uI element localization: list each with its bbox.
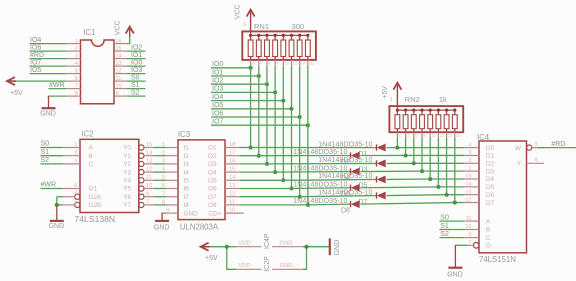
svg-text:15: 15: [146, 142, 152, 148]
svg-text:Y6: Y6: [123, 194, 131, 201]
svg-text:7: 7: [162, 191, 165, 197]
RN2 pin stub bottom 8: [454, 129, 456, 133]
wire net S2 to IC2 C: [41, 163, 64, 165]
svg-text:S2: S2: [131, 90, 140, 97]
svg-text:GND: GND: [40, 110, 56, 117]
wire RN2 column 8 vertical: [454, 138, 456, 203]
RN2 pin stub bottom 2: [405, 129, 407, 133]
svg-text:IO7: IO7: [30, 60, 41, 67]
svg-text:Y4: Y4: [123, 178, 131, 185]
svg-text:12: 12: [439, 133, 444, 138]
IC2 G2A inversion bubble: [75, 194, 80, 199]
RN2 pin stub bottom 5: [429, 129, 431, 133]
svg-text:O3: O3: [208, 161, 217, 168]
wire net IO3 stub: [211, 91, 275, 93]
wire RN1 column 6 vertical: [291, 66, 293, 189]
svg-text:Y2: Y2: [123, 161, 131, 168]
IC3 pin 13 (O6) stub: [225, 188, 240, 190]
junction IO4 at RN1 column: [281, 99, 285, 103]
svg-text:IO3: IO3: [212, 86, 223, 93]
RN1 resistor element 3: [265, 40, 270, 57]
RN2 pin stub bottom 1: [396, 129, 398, 133]
supply symbol +5V bottom: [207, 246, 227, 248]
RN1 pin stub bottom 6: [291, 57, 293, 60]
IC3 pin 2 (I2) stub: [166, 155, 178, 157]
svg-text:GND: GND: [280, 263, 293, 269]
svg-text:12: 12: [116, 68, 122, 74]
svg-text:IO0: IO0: [131, 60, 142, 67]
svg-text:18: 18: [229, 142, 235, 148]
IC4 pin 1 (D3) stub: [464, 170, 479, 172]
ground symbol GND rotated right: [329, 238, 331, 255]
svg-text:GND: GND: [334, 240, 341, 256]
svg-text:7: 7: [75, 83, 78, 89]
svg-text:I8: I8: [184, 202, 190, 209]
IC3 pin 3 (I3) stub: [166, 163, 178, 165]
IC4 pin 5 (W) stub: [532, 147, 544, 149]
svg-text:1: 1: [468, 166, 471, 172]
svg-text:4: 4: [74, 191, 77, 197]
RN1 bus junction 5: [282, 34, 285, 37]
RN1 common bus: [251, 34, 308, 36]
wire VCC to IC1 pin 16: [127, 37, 130, 44]
IC3 pin 14 (O5) stub: [225, 179, 240, 181]
svg-text:I1: I1: [184, 145, 190, 152]
IC1 pin 1 stub: [66, 43, 80, 45]
IC2 output Y4 inversion bubble: [139, 178, 144, 183]
supply symbol +5V at IC1 pin 6: [13, 80, 66, 82]
svg-text:2: 2: [468, 158, 471, 164]
wire RN2 column 6 vertical: [437, 138, 439, 187]
svg-text:9: 9: [468, 232, 471, 238]
IC3 pin 11 (O8) stub: [225, 204, 240, 206]
svg-text:S0: S0: [440, 215, 449, 222]
svg-text:+5V: +5V: [205, 255, 218, 262]
svg-text:4: 4: [260, 60, 263, 65]
wire RN1 column 7 vertical: [299, 66, 301, 197]
RN1 pin stub bottom 1: [250, 57, 252, 60]
svg-text:IO7: IO7: [212, 119, 223, 126]
wire net IO1 stub: [211, 75, 259, 77]
wire matrix row 1 RN1 to diode: [251, 147, 377, 149]
RN1 resistor element 5: [281, 40, 286, 57]
wire IC2 Y5 to IC3 I6: [154, 188, 166, 190]
wire matrix row 4 RN2 to IC4 D3: [422, 170, 464, 172]
RN1 pin 1 riser to VCC: [250, 31, 252, 35]
svg-text:S0: S0: [131, 75, 140, 82]
svg-text:16: 16: [229, 159, 235, 165]
svg-text:IC2P: IC2P: [264, 256, 271, 272]
svg-text:GND: GND: [154, 224, 170, 231]
wire matrix row 8 RN2 to IC4 D7: [455, 202, 464, 204]
svg-text:IC2: IC2: [81, 129, 93, 138]
supply symbol VCC at IC1: [126, 27, 134, 34]
RN1 body: [242, 31, 316, 60]
junction IO0 at RN1 column: [249, 66, 253, 70]
RN1 bus junction 2: [257, 34, 260, 37]
svg-text:S2: S2: [41, 157, 50, 164]
svg-text:G2B: G2B: [89, 202, 102, 209]
IC2 G2B inversion bubble: [75, 202, 80, 207]
RN1 bus junction 4: [274, 34, 277, 37]
svg-text:12: 12: [146, 167, 152, 173]
RN2 bus junction 3: [412, 109, 415, 112]
junction RN1 column 4 at matrix row: [273, 170, 277, 174]
IC2 pin 3 (C) stub: [63, 163, 80, 165]
svg-text:RN2: RN2: [405, 95, 420, 104]
wire net S0 to IC2 A: [41, 147, 64, 149]
junction IO2 at RN1 column: [265, 82, 269, 86]
junction RN2 column 7 at row D6: [445, 193, 449, 197]
wire IC3 O8 row to RN1 column: [240, 204, 308, 206]
wire net IO2 at IC1 pin 15: [127, 50, 146, 52]
svg-text:G: G: [486, 243, 491, 250]
svg-text:IO6: IO6: [30, 45, 41, 52]
wire IC2 G2B to ground rail: [57, 204, 63, 206]
wire IC3 O6 row to RN1 column: [240, 188, 292, 190]
wire matrix row 6 diode to RN2 column: [361, 186, 439, 189]
diode D3: [376, 160, 378, 166]
RN1 pin stub bottom 3: [266, 57, 268, 60]
wire RN1 column 4 vertical: [274, 66, 276, 172]
RN1 pin stub bottom 8: [307, 57, 309, 60]
svg-text:4: 4: [407, 133, 410, 138]
wire net IO1 at IC1 pin 14: [127, 58, 146, 60]
junction RN1 column 5 at matrix row: [281, 178, 285, 182]
junction RN2 column 6 at row D5: [436, 185, 440, 189]
wire RN1 column 5 vertical: [282, 66, 284, 181]
wire IC3 O2 row to RN1 column: [240, 155, 259, 157]
wire RN1 column 3 vertical: [266, 66, 268, 164]
svg-text:7: 7: [468, 240, 471, 246]
IC1 pin 15 stub: [114, 50, 127, 52]
svg-text:IO6: IO6: [212, 110, 223, 117]
RN2 bus junction 7: [445, 109, 448, 112]
wire +5V rail down to IC2P VDD: [227, 247, 236, 270]
svg-text:12: 12: [465, 197, 471, 203]
wire net S1 at IC1 pin 10: [127, 88, 146, 90]
IC2 pin 6 (G1) stub: [63, 188, 80, 190]
IC3 pin 6 (I6) stub: [166, 188, 178, 190]
IC2 pin 10 (Y5) stub: [144, 188, 154, 190]
RN1 pin stub bottom 7: [299, 57, 301, 60]
supply symbol +5V at RN2: [393, 83, 401, 90]
svg-text:14: 14: [301, 60, 306, 65]
IC2 pin 12 (Y3) stub: [144, 171, 154, 173]
IC1 pin 3 stub: [66, 58, 80, 60]
svg-text:D0: D0: [486, 145, 495, 152]
RN1 bus junction 8: [306, 34, 309, 37]
wire IC2 Y0 to IC3 I1: [154, 147, 166, 149]
diode D1: [376, 144, 378, 150]
IC2P VDD pin stub: [236, 268, 262, 270]
RN1 bus junction 1: [249, 34, 252, 37]
IC3 ULN2803A body: [178, 140, 225, 220]
wire IC3 O7 row to RN1 column: [240, 196, 300, 198]
junction RN1 column 6 at matrix row: [290, 187, 294, 191]
svg-text:15: 15: [229, 167, 235, 173]
RN2 bus junction 8: [453, 109, 456, 112]
svg-text:O7: O7: [208, 194, 217, 201]
wire IC3 O5 row to RN1 column: [240, 179, 283, 181]
IC4P VDD pin stub: [236, 246, 262, 248]
wire RN2 column 2 vertical: [405, 138, 407, 156]
wire net IO7 at IC1 pin 4: [30, 65, 67, 67]
svg-text:GND: GND: [280, 241, 293, 247]
IC2 pin 14 (Y1) stub: [144, 155, 154, 157]
junction RN1 column 8 at matrix row: [306, 203, 310, 207]
svg-text:6: 6: [75, 76, 78, 82]
ground symbol GND below IC3: [161, 213, 163, 221]
wire matrix row 3 diode to RN2 column: [387, 162, 414, 164]
svg-text:B: B: [486, 227, 490, 234]
diode D6: [350, 185, 352, 191]
svg-text:300: 300: [292, 22, 305, 31]
wire net S1 to IC4 B: [440, 229, 465, 231]
svg-text:3: 3: [162, 159, 165, 165]
wire matrix row 8 diode to RN2 column: [361, 203, 455, 205]
wire matrix row 2 RN1 to diode: [259, 155, 351, 157]
RN2 resistor element 1: [395, 115, 400, 129]
svg-text:11: 11: [116, 76, 122, 82]
svg-text:4: 4: [468, 142, 471, 148]
IC1 pin 10 stub: [114, 88, 127, 90]
IC4 pin 2 (D2) stub: [464, 162, 479, 164]
svg-text:14: 14: [116, 53, 122, 59]
svg-text:IO2: IO2: [212, 78, 223, 85]
wire net S0 to IC4 A: [440, 220, 465, 222]
svg-text:3: 3: [74, 159, 77, 165]
svg-text:74LS151N: 74LS151N: [479, 255, 516, 264]
IC2 pin 7 (Y7) stub: [144, 204, 154, 206]
wire RN2 column 7 vertical: [446, 138, 448, 195]
IC3 pin 10 (CD+) stub unconnected: [225, 212, 244, 214]
RN2 resistor element 8: [452, 115, 457, 129]
wire IC4 G to ground: [455, 245, 467, 248]
junction RN2 column 1 at row D0: [395, 146, 399, 150]
svg-text:14: 14: [229, 175, 235, 181]
wire net IO2 stub: [211, 83, 267, 85]
RN2 bus junction 5: [429, 109, 432, 112]
svg-text:1N4148DO35-10: 1N4148DO35-10: [293, 196, 347, 205]
wire RN1 column 8 vertical: [307, 66, 309, 205]
junction RN1 column 3 at matrix row: [265, 162, 269, 166]
svg-text:11: 11: [466, 216, 472, 222]
svg-text:6: 6: [415, 133, 418, 138]
diode D2: [350, 152, 352, 158]
svg-text:6: 6: [535, 158, 538, 164]
wire net IO5 at IC1 pin 5: [30, 73, 67, 75]
ground symbol GND below IC1: [48, 96, 50, 108]
svg-text:D7: D7: [486, 200, 495, 207]
IC4P GND pin stub: [272, 246, 303, 248]
wire matrix row 3 RN2 to IC4 D2: [414, 162, 464, 164]
svg-text:#WR: #WR: [49, 82, 65, 89]
svg-text:A: A: [89, 145, 94, 152]
wire +5V to IC4P VDD: [227, 246, 236, 248]
IC4 pin 7 (G) inversion bubble: [473, 243, 479, 249]
IC2 output Y5 inversion bubble: [139, 186, 144, 191]
junction IO7 at RN1 column: [306, 123, 310, 127]
IC3 pin 18 (O1) stub: [225, 147, 240, 149]
IC4 pin 11 (A) stub: [464, 220, 479, 222]
svg-text:IO0: IO0: [212, 61, 223, 68]
svg-text:2: 2: [398, 133, 401, 138]
svg-text:B: B: [89, 153, 93, 160]
svg-text:16: 16: [456, 133, 461, 138]
svg-text:IC3: IC3: [178, 130, 190, 139]
RN2 common bus: [397, 109, 454, 111]
wire net IO6 stub: [211, 116, 300, 118]
IC4 pin 15 (D4) stub: [464, 178, 479, 180]
IC4 pin 6 (Y) stub unconnected: [527, 162, 544, 164]
svg-text:6: 6: [268, 60, 271, 65]
svg-text:I4: I4: [184, 169, 190, 176]
IC1 pin 2 stub: [66, 50, 80, 52]
junction IO5 at RN1 column: [290, 107, 294, 111]
svg-text:10: 10: [431, 133, 436, 138]
wire net IO0 stub: [211, 67, 251, 69]
wire matrix row 6 RN1 to diode: [292, 187, 351, 190]
svg-text:G1: G1: [89, 186, 98, 193]
wire net #RD from IC4 W to edge: [538, 147, 576, 149]
wire net S1 to IC2 B: [41, 155, 64, 157]
IC2 output Y0 inversion bubble: [139, 145, 144, 150]
svg-text:O2: O2: [208, 153, 217, 160]
wire matrix row 2 diode to RN2 column: [361, 154, 406, 156]
svg-text:O1: O1: [208, 145, 217, 152]
svg-text:11: 11: [229, 200, 235, 206]
IC2 pin 9 (Y6) stub: [144, 196, 154, 198]
svg-text:IO4: IO4: [30, 37, 41, 44]
wire net IO4 at IC1 pin 1: [30, 43, 67, 45]
svg-text:Y0: Y0: [123, 145, 131, 152]
junction RN2 column 2 at row D1: [404, 153, 408, 157]
svg-text:14: 14: [465, 182, 471, 188]
wire net S0 at IC1 pin 11: [127, 80, 146, 82]
svg-text:Y3: Y3: [123, 169, 131, 176]
svg-text:Y: Y: [517, 161, 522, 168]
svg-text:Y5: Y5: [123, 186, 131, 193]
svg-text:1: 1: [390, 97, 393, 103]
svg-text:11: 11: [146, 175, 152, 181]
svg-text:S0: S0: [41, 141, 50, 148]
svg-text:9: 9: [166, 207, 169, 213]
wire matrix row 1 RN2 to IC4 D0: [397, 147, 464, 149]
IC1 pin 16 stub: [114, 43, 127, 45]
wire RN1 column 1 vertical: [250, 66, 252, 148]
wire IC4P GND to ground symbol: [303, 246, 330, 248]
wire net IO4 stub: [211, 100, 283, 102]
RN2 resistor element 3: [411, 115, 416, 129]
diode D8: [350, 201, 352, 207]
svg-text:10: 10: [116, 83, 122, 89]
junction IO1 at RN1 column: [257, 74, 261, 78]
IC2 output Y3 inversion bubble: [139, 170, 144, 175]
wire matrix row 5 RN2 to IC4 D4: [430, 178, 464, 180]
IC2 output Y6 inversion bubble: [139, 194, 144, 199]
svg-text:10: 10: [465, 224, 471, 230]
svg-text:O5: O5: [208, 178, 217, 185]
svg-text:IO1: IO1: [212, 69, 223, 76]
svg-text:GND: GND: [49, 223, 65, 230]
svg-text:D6: D6: [486, 192, 495, 199]
svg-text:10: 10: [146, 183, 152, 189]
svg-text:15: 15: [116, 46, 122, 52]
junction RN1 column 7 at matrix row: [298, 195, 302, 199]
junction RN2 column 8 at row D7: [453, 201, 457, 205]
IC2 output Y2 inversion bubble: [139, 161, 144, 166]
RN1 resistor element 4: [273, 40, 278, 57]
svg-text:D2: D2: [486, 161, 495, 168]
svg-text:I7: I7: [184, 194, 190, 201]
IC2 pin 11 (Y4) stub: [144, 179, 154, 181]
junction at IC2 G2B ground rail: [55, 203, 59, 207]
IC3 pin 12 (O7) stub: [225, 196, 240, 198]
wire matrix row 8 RN1 to diode: [308, 203, 351, 206]
svg-text:D1: D1: [486, 153, 495, 160]
IC4 pin 3 (D1) stub: [464, 154, 479, 156]
svg-text:1: 1: [243, 22, 246, 28]
IC1 pin 6 stub: [66, 80, 80, 82]
svg-text:IC4P: IC4P: [264, 233, 271, 249]
RN2 resistor element 7: [444, 115, 449, 129]
wire IC2 Y1 to IC3 I2: [154, 155, 166, 157]
IC4 pin 10 (B) stub: [464, 229, 479, 231]
IC3 pin 8 (I8) stub: [166, 204, 178, 206]
RN1 resistor element 1: [248, 40, 253, 57]
svg-text:4: 4: [75, 61, 78, 67]
RN1 bus junction 6: [290, 34, 293, 37]
RN1 resistor element 2: [256, 40, 261, 57]
IC1 pin 4 stub: [66, 65, 80, 67]
svg-text:1k: 1k: [439, 95, 447, 104]
svg-text:10: 10: [284, 60, 289, 65]
svg-text:S2: S2: [440, 231, 449, 238]
svg-text:12: 12: [229, 191, 235, 197]
svg-text:6: 6: [74, 183, 77, 189]
IC2 output Y1 inversion bubble: [139, 153, 144, 158]
svg-text:A: A: [486, 218, 491, 225]
IC1 pin 9 stub: [114, 95, 127, 97]
wire IC1 pin 8 to ground: [49, 96, 67, 98]
wire matrix row 7 RN2 to IC4 D6: [447, 194, 464, 196]
junction RN1 column 2 at matrix row: [257, 154, 261, 158]
RN2 body: [389, 106, 463, 132]
svg-text:IO1: IO1: [131, 52, 142, 59]
wire matrix row 4 RN1 to diode: [275, 171, 350, 174]
svg-text:I5: I5: [184, 178, 190, 185]
wire RN2 column 4 vertical: [421, 138, 423, 172]
svg-text:#RD: #RD: [551, 141, 565, 148]
svg-text:IO3: IO3: [131, 67, 142, 74]
svg-text:4: 4: [162, 167, 165, 173]
svg-text:2: 2: [252, 60, 255, 65]
wire IC2 G2A to ground rail: [57, 196, 63, 198]
junction IO3 at RN1 column: [273, 90, 277, 94]
wire IC2 Y2 to IC3 I3: [154, 163, 166, 165]
svg-text:14: 14: [146, 150, 152, 156]
RN2 pin 1 riser to +5V: [396, 106, 398, 110]
junction GND rail: [305, 245, 309, 249]
IC4 pin 13 (D6) stub: [464, 194, 479, 196]
wire IC3 pin 9 to ground: [162, 212, 166, 215]
svg-text:I6: I6: [184, 186, 190, 193]
svg-text:3: 3: [468, 150, 471, 156]
diode D4: [350, 168, 352, 174]
IC3 pin 5 (I5) stub: [166, 179, 178, 181]
wire net IO0 at IC1 pin 13: [127, 65, 146, 67]
